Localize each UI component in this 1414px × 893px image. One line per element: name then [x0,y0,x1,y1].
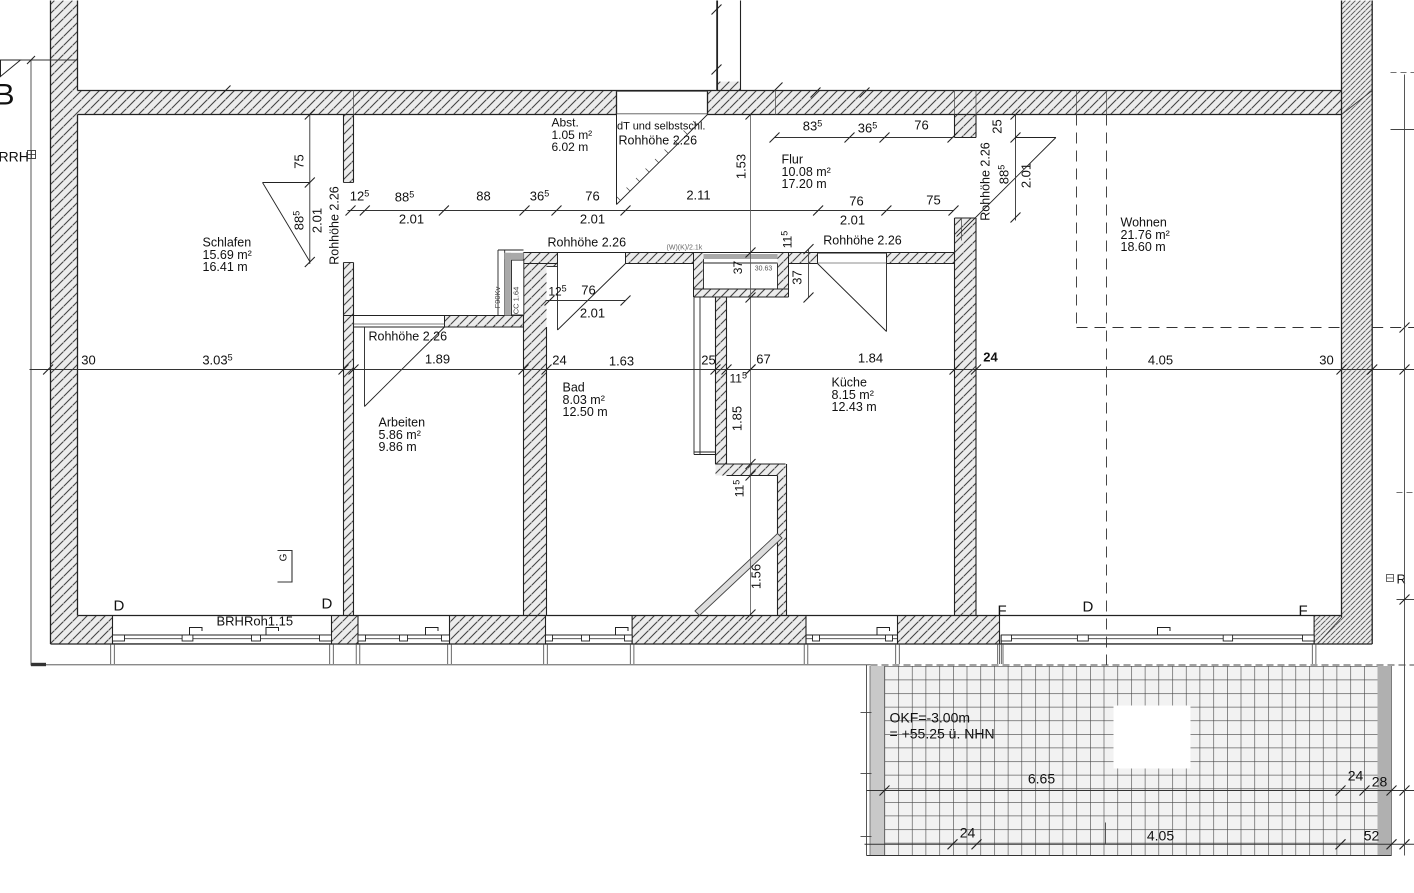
svg-text:37: 37 [790,270,805,284]
svg-text:(W)(K)/2.1k: (W)(K)/2.1k [667,245,703,252]
wire: Wohnen door niche line [961,218,963,241]
node: bottom-right corner miter joint [1318,618,1342,645]
wall: shaft bottom wall [694,289,789,297]
wire: Flur south wall bottom edge [789,263,818,265]
svg-text:88: 88 [476,189,490,204]
balcony: bottom edge line [867,855,1392,857]
svg-text:B: B [0,79,15,112]
shaft gray strip [704,254,778,259]
svg-text:Rohhöhe 2.26: Rohhöhe 2.26 [823,234,902,248]
door: entry door leaf (dT und selbstschl.) [616,115,618,205]
svg-text:BRHRoh1.15: BRHRoh1.15 [217,614,294,629]
balcony: tiled terrace floor [885,666,1378,856]
wire: right wall outer face [1371,1,1373,645]
balcony: outer boundary line left [866,665,868,856]
svg-text:Rohhöhe 2.26: Rohhöhe 2.26 [548,236,627,250]
svg-text:2.01: 2.01 [580,212,605,227]
door: Bad door leaf and swing [557,264,559,331]
balcony: left parapet strip [870,666,885,856]
door: Schlafen door triangle [263,182,310,184]
node: Kueche door jambs [817,253,819,264]
balcony: white label hole [1114,706,1191,769]
window: Schlafen window (D) [113,634,332,636]
wire: left wall outer face [50,1,52,645]
svg-text:D: D [114,598,125,615]
wall: Schlafen east wall upper segment [344,115,354,183]
wall: Arbeiten/Bad dividing wall [524,267,547,616]
wall: Bad north wall segment east of door [626,253,694,264]
wall: top outer wall left of entry door [78,91,617,115]
wall: stairwell wall stub above top wall [718,82,741,91]
svg-text:F: F [1299,603,1308,620]
wall: Flur-Kueche/Wohnen dividing wall [955,218,977,616]
wire: Arbeiten door sill line [354,323,445,325]
node: Wohnen door jamb lines [955,137,977,139]
dim: main horizontal dimension chain [30,369,1414,371]
svg-text:4.05: 4.05 [1148,353,1173,368]
svg-text:Rohhöhe 2.26: Rohhöhe 2.26 [369,330,448,344]
wire: shaft outline [693,253,695,298]
wall: bottom wall pier between Schlafen and Arbeiten windows [332,616,359,645]
dashed line: Wohnen ceiling edge horizontal [1077,327,1342,329]
shaft: inner white box [512,260,524,315]
svg-text:76: 76 [585,189,599,204]
node: tick on right continuation [1400,323,1410,333]
dim: 37 right of shaft [808,249,810,297]
wall: Arbeiten north wall [445,316,524,328]
dim: Schlafen door dim line [309,115,311,265]
dim: Flur upper dimension line [775,137,954,139]
wire: Kueche alcove east wall faces [777,476,779,616]
section mark B: triangle [1,60,21,77]
wall: bottom wall pier left corner [51,616,113,645]
wire: facade ground line solid part [31,664,871,666]
node: top-right corner miter joint [1342,91,1373,115]
wire: Flur/Wohnen wall faces [954,115,956,138]
svg-text:1.56: 1.56 [749,564,764,589]
svg-text:67: 67 [756,352,770,367]
node: axis D extension line in balcony [1105,823,1107,845]
wall: Flur south wall east of Kueche door [887,253,955,264]
wire: bottom wall interior edge [78,615,1342,617]
svg-text:16.41 m: 16.41 m [203,260,248,274]
svg-text:CC 1.64: CC 1.64 [512,287,521,315]
wall: top outer wall right of entry door [708,91,1342,115]
wire: entry door lintel lines [617,91,708,93]
wire: top wall inner edge west part [78,114,617,116]
wall: Flur/Wohnen wall stub above door [955,115,977,138]
dim: balcony lower dimension line 4.05 [865,843,1414,845]
svg-text:28: 28 [1372,774,1388,790]
wall: Kueche alcove top wall [716,464,786,476]
svg-text:dT und selbstschl.: dT und selbstschl. [617,121,705,133]
dim: balcony upper dimension line 6.65 [867,790,1414,792]
svg-text:F: F [998,603,1007,620]
wire: Schlafen east wall faces [343,115,345,183]
wire: Bad/Kueche wall faces [715,297,717,464]
svg-text:1.84: 1.84 [858,351,883,366]
svg-text:75: 75 [926,193,940,208]
wire: Kueche door lintel [818,253,887,255]
svg-text:76: 76 [849,194,863,209]
node: entry door east jamb [707,91,709,115]
wall: bottom wall wide pier between Bad and Kueche windows [632,616,806,645]
dim: central vertical dimension line [750,115,752,615]
svg-text:52: 52 [1364,828,1380,844]
svg-text:1.85: 1.85 [730,406,745,431]
wall: Bad/Kueche dividing wall [716,297,727,464]
svg-text:= +55.25 ü. NHN: = +55.25 ü. NHN [890,726,995,742]
door: Arbeiten door leaf and swing [364,327,366,407]
door: entry door swing line with ticks [617,115,708,205]
shaft inner top line [704,262,778,264]
wall: bottom wall pier between Kueche and Wohnen windows [898,616,1000,645]
svg-text:30: 30 [1319,353,1333,368]
dashed line: Wohnen ceiling edge west [1076,115,1078,328]
wire: Bad north wall edges [524,252,955,254]
svg-text:1.63: 1.63 [609,354,634,369]
dashed line: continuation right of wall [1372,327,1414,329]
svg-text:76: 76 [581,283,595,298]
svg-text:2.01: 2.01 [840,213,865,228]
svg-text:D: D [322,596,333,613]
wall: Schlafen east wall lower segment [344,263,354,616]
window: Bad window [546,634,633,636]
wall: Kueche alcove east wall [778,476,787,616]
window reveal lines below sill [110,644,112,664]
svg-text:12.50 m: 12.50 m [563,405,608,419]
shaft: gray L strip [505,253,524,259]
node: Schlafen door jamb lines [344,182,354,184]
svg-text:30: 30 [81,353,95,368]
svg-text:F90Kv: F90Kv [493,286,502,308]
wall: Arbeiten/Bad dividing wall upper block [524,253,558,267]
balcony: right parapet strip [1378,666,1392,856]
wire: top wall joint lines [353,91,355,115]
door: Kueche alcove door leaf at 45deg [695,534,782,616]
dim: left vertical dimension line [30,60,32,666]
svg-text:24: 24 [1348,768,1364,784]
svg-text:24: 24 [552,353,566,368]
section mark B: arrow line [16,59,78,61]
svg-text:30.63: 30.63 [755,266,773,273]
wall: left outer wall [51,1,78,645]
svg-text:Rohhöhe 2.26: Rohhöhe 2.26 [979,142,993,221]
wall: right outer wall [1342,1,1373,618]
wall: bottom wall right corner pier [1314,616,1372,645]
dim: corridor dimension line [348,210,954,212]
wire: left wall inner face lower [77,115,79,616]
door: Wohnen door triangle [1016,137,1056,139]
wire: right wall inner face [1341,1,1343,618]
node: Bad door jambs [557,253,559,264]
svg-text:OKF=-3.00m: OKF=-3.00m [890,710,971,726]
svg-text:RRH: RRH [0,149,29,165]
wire: Arbeiten/Bad wall faces [523,253,525,616]
node: ticks on top wall outer edge [221,86,231,96]
svg-text:D: D [1083,599,1094,616]
svg-text:1.89: 1.89 [425,352,450,367]
svg-text:24: 24 [960,825,976,841]
svg-text:25: 25 [701,353,715,368]
svg-text:4.05: 4.05 [1147,828,1174,844]
wire: bottom wall outer edge [51,643,1373,645]
window: Wohnen window (F D F) [1001,634,1314,636]
svg-text:75: 75 [292,154,307,168]
svg-text:2.01: 2.01 [1019,163,1034,188]
svg-text:2.01: 2.01 [399,212,424,227]
svg-text:18.60 m: 18.60 m [1121,240,1166,254]
wire: stairwell wall east line [740,1,742,91]
svg-text:24: 24 [983,350,998,365]
shaft: Arbeiten/Bad installation shaft outline [497,250,499,316]
svg-text:2.01: 2.01 [310,208,325,233]
wire: top wall inner edge east part [708,114,1342,116]
svg-text:76: 76 [914,118,928,133]
wall: shaft west wall [694,253,704,298]
balcony: left edge tick marks [861,712,872,714]
wall: bottom wall pier between Arbeiten and Bad windows [450,616,546,645]
wire: Bad vorwand thin lines [693,297,695,455]
wire: stairwell wall west line [717,1,719,91]
svg-text:25: 25 [990,119,1005,133]
wire: left wall inner face upper [77,1,79,91]
wire: Arbeiten north wall edges [344,315,524,317]
svg-text:Rohhöhe 2.26: Rohhöhe 2.26 [328,186,342,265]
node: entry door west jamb [616,91,618,115]
svg-text:6.02 m: 6.02 m [552,140,589,154]
svg-text:17.20 m: 17.20 m [782,177,827,191]
svg-text:1.53: 1.53 [734,154,749,179]
dim: Wohnen door dim line [1015,115,1017,221]
wire: bottom wall pier edges [112,616,114,645]
svg-text:Rohhöhe 2.26: Rohhöhe 2.26 [619,134,698,148]
wall: Flur south wall west of Kueche door [789,253,818,264]
dim: right vertical dimension line [1404,75,1406,856]
wire: top wall outer edge [78,90,1342,92]
svg-text:9.86 m: 9.86 m [379,440,417,454]
svg-text:2.01: 2.01 [580,306,605,321]
svg-text:12.43 m: 12.43 m [832,400,877,414]
wire: Kueche alcove top wall edges [716,463,786,465]
symbol: G bracket in Schlafen [278,551,293,583]
dim: Bad interior dimension [546,300,626,302]
window: Arbeiten window (D) [358,634,450,636]
dim: stairwell vertical dimension line [716,1,718,91]
wire: facade dashed line along balcony [871,664,1414,666]
door: Kueche door leaf and swing [886,264,888,332]
svg-text:37: 37 [731,261,745,275]
svg-text:2.11: 2.11 [686,188,710,203]
node: dashed line stubs through top wall [1076,91,1078,115]
dashed line: Wohnen ceiling edge centre (D axis) [1106,115,1108,665]
node: facade line thick tick at left [31,663,46,666]
window: Kueche window (F) [806,634,898,636]
svg-text:G: G [279,553,290,561]
svg-text:6.65: 6.65 [1028,771,1055,787]
wall: shaft east wall [778,253,789,298]
node: right edge dashes [1391,129,1414,131]
